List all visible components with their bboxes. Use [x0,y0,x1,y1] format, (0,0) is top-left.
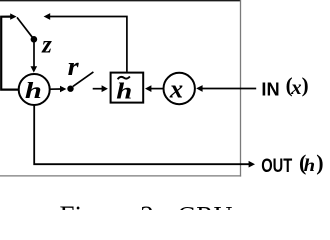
wire: h bottom down and right to OUT [34,105,249,164]
label r [68,52,80,81]
svg-text:): ) [316,150,323,175]
switch r arm (open, raised) [73,72,94,87]
wire: switch z pole down to node h [33,42,35,67]
arrowhead: into node h top (points down) [31,66,38,72]
switch z arm (pole to left contact) [17,17,34,39]
caption: Figure 2: GRU (clipped at bottom) [60,200,233,230]
svg-text:r: r [68,52,80,81]
svg-text:GRU: GRU [178,201,233,210]
svg-text:h: h [304,155,316,175]
label h (state) [25,78,42,103]
svg-text:x: x [169,73,183,103]
node h circle [19,74,50,105]
arrowhead: OUT (points right) [249,161,255,168]
label h-tilde [116,77,132,104]
svg-text:z: z [41,31,52,58]
wire: x to h-tilde box [151,88,164,90]
outer GRU unit box (bottom border) [0,175,241,177]
wire: switch r output into h-tilde box [93,88,103,90]
svg-text:Figure: Figure [60,200,131,210]
label z [41,31,52,58]
h-tilde box [111,73,144,103]
svg-text:h: h [25,78,42,103]
arrowhead: into h-tilde box left (points right) [102,85,108,92]
wire: h feedback up left side to switch z left contact [1,17,18,90]
wire: h right to switch r [50,88,61,90]
svg-text:IN: IN [261,79,279,99]
arrowhead: into node x (points left) [196,85,202,92]
arrowhead: switch z right contact (points left) [44,13,51,20]
svg-text:h: h [116,78,132,103]
label OUT (h) [261,150,323,177]
node x circle [164,73,195,104]
svg-text:x: x [290,75,302,99]
arrowhead: into switch z left contact (points right) [10,13,16,19]
label IN (x) [261,73,308,99]
wire: top line from h-tilde box to switch z right contact [50,17,127,72]
outer GRU unit box (right border) [240,0,242,177]
switch r pole dot [67,86,73,92]
switch z pole dot [31,36,38,43]
svg-text:2:: 2: [140,200,161,210]
arrowhead: into switch r pole (points right) [60,86,66,93]
label x (input) [169,73,183,103]
outer GRU unit box (top border) [0,0,241,2]
svg-text:OUT: OUT [261,156,292,177]
arrowhead: into h-tilde box right (points left) [145,85,151,92]
svg-text:): ) [302,73,309,97]
wire: IN to node x [202,88,257,90]
